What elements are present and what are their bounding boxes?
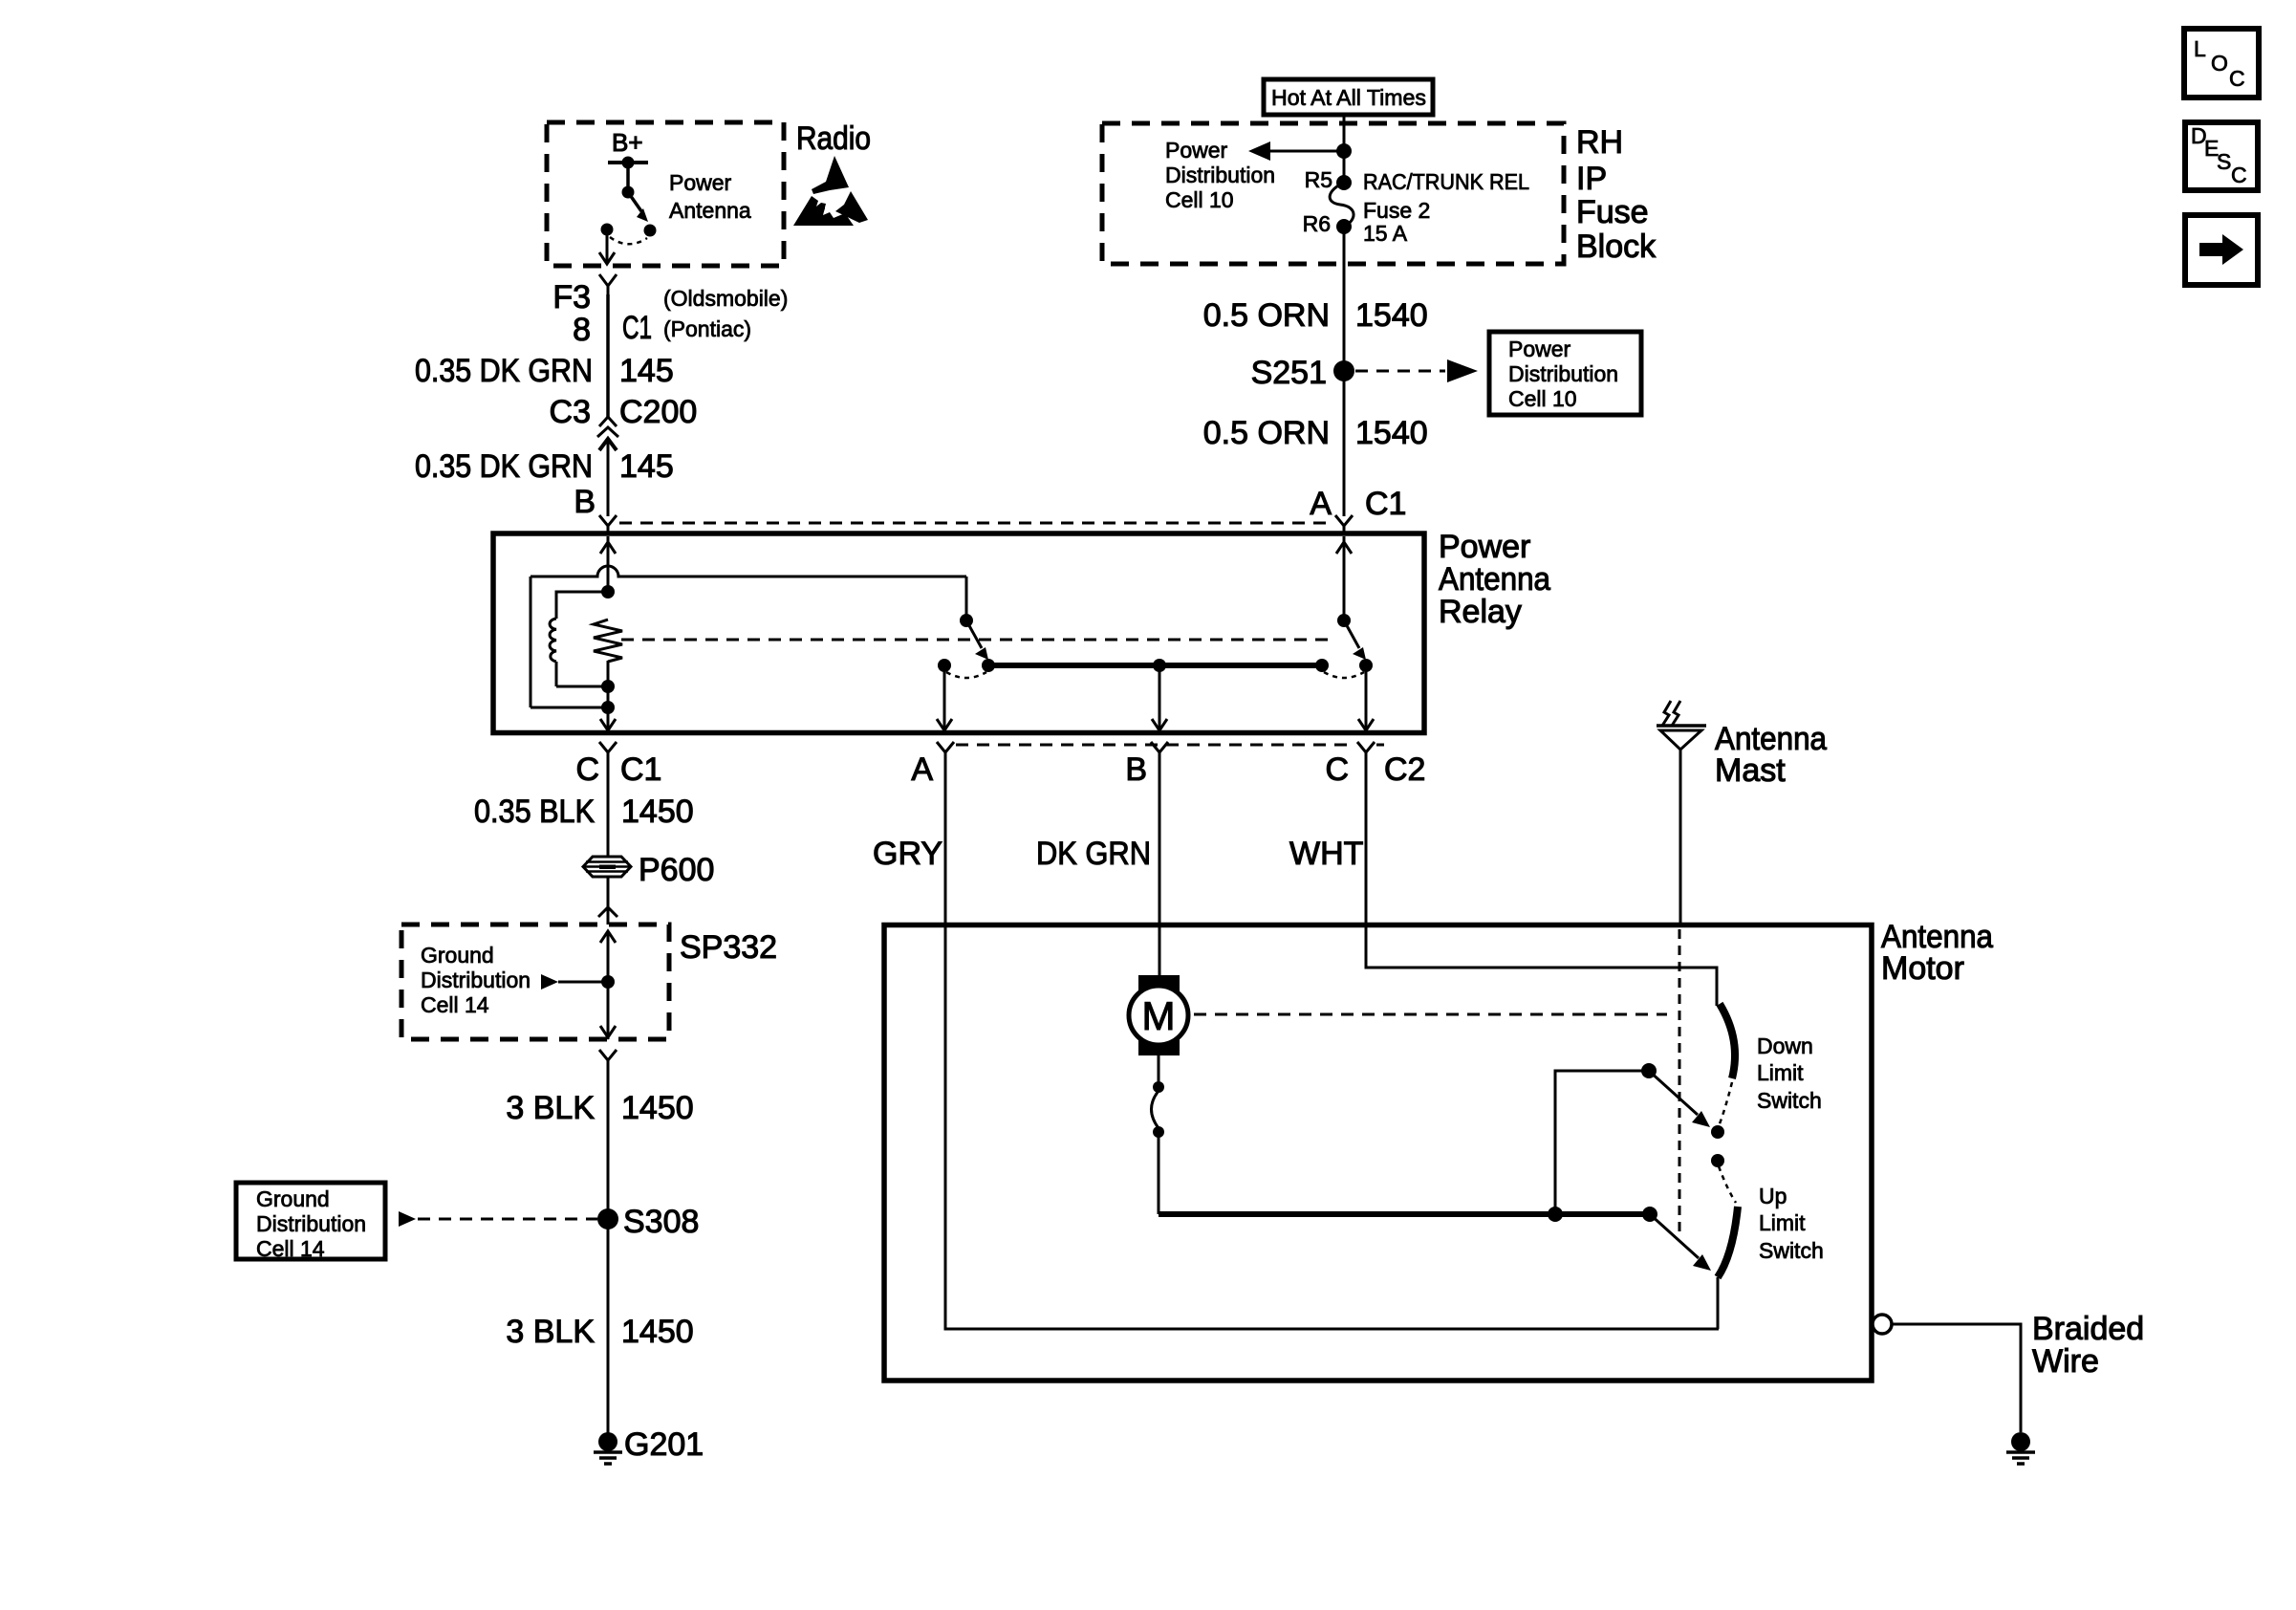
svg-text:C1: C1 bbox=[620, 751, 661, 788]
connector Y below radio bbox=[599, 274, 617, 296]
connector Y pin B bottom bbox=[1151, 742, 1168, 765]
svg-text:Ground: Ground bbox=[421, 943, 494, 968]
svg-text:Motor: Motor bbox=[1881, 950, 1964, 987]
svg-text:P600: P600 bbox=[639, 852, 714, 888]
DESC icon bbox=[2185, 122, 2258, 190]
arrow icon bbox=[2185, 215, 2258, 285]
svg-text:RAC/TRUNK REL: RAC/TRUNK REL bbox=[1363, 169, 1529, 194]
svg-text:C2: C2 bbox=[1384, 751, 1425, 788]
coil circuit top line with hop over pin B wire bbox=[531, 566, 966, 577]
svg-text:(Oldsmobile): (Oldsmobile) bbox=[663, 286, 788, 311]
down limit blade bbox=[1649, 1071, 1698, 1115]
svg-text:0.35 DK GRN: 0.35 DK GRN bbox=[415, 353, 593, 389]
wire fuse to S251 bbox=[1343, 227, 1346, 371]
wire B (DK GRN) to motor bbox=[1159, 765, 1161, 977]
radio switch wire bbox=[626, 163, 630, 192]
fuse element bbox=[1330, 183, 1354, 227]
arrow up inside SP332 bbox=[600, 931, 616, 1039]
wire contact C down bbox=[1365, 665, 1368, 730]
svg-text:0.35 BLK: 0.35 BLK bbox=[474, 794, 595, 830]
braided wire terminal circle bbox=[1873, 1315, 1892, 1334]
svg-text:Antenna: Antenna bbox=[1439, 561, 1550, 598]
braided wire ground bbox=[2006, 1432, 2035, 1464]
connector Y pin C bottom bbox=[599, 742, 617, 765]
relay thick transfer bar bbox=[988, 663, 1322, 668]
arrow up inside relay at pin B bbox=[600, 542, 616, 554]
svg-text:Radio: Radio bbox=[796, 120, 871, 157]
svg-text:(Pontiac): (Pontiac) bbox=[663, 316, 751, 341]
switch 2 pivot dot bbox=[1337, 614, 1351, 627]
svg-text:Block: Block bbox=[1576, 228, 1657, 265]
radio switch blade bbox=[628, 192, 641, 211]
internal switch top dot bbox=[1153, 1081, 1164, 1093]
hot at all times box bbox=[1264, 79, 1433, 115]
ground distribution cell 14 box bbox=[236, 1183, 385, 1259]
svg-text:R5: R5 bbox=[1305, 167, 1332, 192]
internal switch arc blade bbox=[1152, 1091, 1159, 1128]
svg-text:Cell 10: Cell 10 bbox=[1508, 386, 1577, 411]
coil circuit bottom link bbox=[531, 707, 608, 709]
grommet P600 bbox=[583, 857, 631, 877]
svg-text:1450: 1450 bbox=[621, 1090, 694, 1126]
wire up limit arc to return line bbox=[1717, 1277, 1720, 1329]
up limit dashed arc bbox=[1719, 1166, 1736, 1203]
svg-text:A: A bbox=[911, 751, 933, 788]
wire contact A down bbox=[943, 665, 946, 730]
svg-text:1540: 1540 bbox=[1355, 415, 1428, 451]
relay coil inductor branch bbox=[556, 592, 608, 686]
svg-text:B+: B+ bbox=[612, 128, 643, 157]
arrow up into C200 bbox=[599, 439, 617, 450]
wire Y to C200 bbox=[606, 294, 610, 417]
svg-text:0.5 ORN: 0.5 ORN bbox=[1203, 415, 1330, 451]
svg-text:C: C bbox=[2231, 163, 2247, 187]
svg-text:Ground: Ground bbox=[256, 1186, 330, 1211]
svg-text:IP: IP bbox=[1576, 161, 1607, 197]
coil return node dot bbox=[601, 701, 615, 714]
svg-text:15 A: 15 A bbox=[1363, 221, 1408, 246]
B+ node dot bbox=[622, 157, 635, 169]
svg-text:Switch: Switch bbox=[1757, 1088, 1822, 1113]
svg-text:Relay: Relay bbox=[1439, 594, 1522, 630]
ground G201 bbox=[594, 1432, 622, 1464]
arrow left to power distribution bbox=[1248, 141, 1270, 161]
arrow down pin C bbox=[1358, 719, 1374, 730]
connector Y pin C2 bottom bbox=[1357, 742, 1375, 765]
wire C (WHT) into motor box bbox=[1366, 765, 1717, 1006]
arrow down inside SP332 bbox=[600, 1026, 616, 1037]
svg-text:Power: Power bbox=[1439, 529, 1530, 565]
thick link wire to limit switches bbox=[1159, 1211, 1650, 1217]
up limit switch thick arc bbox=[1718, 1207, 1738, 1277]
LOC icon bbox=[2184, 29, 2259, 98]
up limit pivot dot bbox=[1642, 1207, 1657, 1222]
svg-text:Power: Power bbox=[1508, 337, 1571, 361]
wire C200 to relay pin B bbox=[607, 439, 610, 516]
svg-text:Power: Power bbox=[669, 170, 732, 195]
svg-text:Limit: Limit bbox=[1757, 1060, 1804, 1085]
SP332 junction dot bbox=[601, 975, 615, 989]
wire motor to internal switch bbox=[1158, 1055, 1160, 1087]
svg-text:RH: RH bbox=[1576, 124, 1623, 161]
radio switch contact dot right bbox=[644, 225, 657, 237]
svg-text:C1: C1 bbox=[622, 310, 652, 346]
fuse R5 dot bbox=[1336, 175, 1352, 190]
wire radio switch to box edge bbox=[606, 229, 609, 264]
down limit pivot dot bbox=[1641, 1063, 1657, 1078]
svg-text:3 BLK: 3 BLK bbox=[506, 1314, 595, 1350]
up limit blade bbox=[1650, 1214, 1699, 1258]
svg-text:Antenna: Antenna bbox=[669, 198, 751, 223]
svg-text:Limit: Limit bbox=[1759, 1210, 1806, 1235]
relay coil feed wire (pin B) bbox=[607, 536, 610, 592]
relay coil resistor zigzag bbox=[594, 620, 622, 662]
svg-text:C1: C1 bbox=[1365, 486, 1406, 522]
svg-text:DK GRN: DK GRN bbox=[1036, 836, 1151, 872]
svg-text:C3: C3 bbox=[550, 394, 591, 430]
power distribution branch wire bbox=[1269, 150, 1344, 153]
switch 2 feed wire from pin A top bbox=[1343, 536, 1346, 620]
svg-text:S251: S251 bbox=[1251, 355, 1327, 391]
svg-text:3 BLK: 3 BLK bbox=[506, 1090, 595, 1126]
connector C200 male half bbox=[597, 427, 618, 437]
dashed line S251 to power distribution bbox=[1355, 370, 1445, 373]
svg-text:0.35 DK GRN: 0.35 DK GRN bbox=[415, 448, 593, 485]
splice S308 dot bbox=[597, 1208, 618, 1229]
fuse R6 dot bbox=[1336, 219, 1352, 234]
svg-text:Up: Up bbox=[1759, 1184, 1787, 1208]
radio dashed box bbox=[547, 122, 784, 266]
svg-text:8: 8 bbox=[573, 312, 591, 348]
radio switch contact dot left bbox=[601, 224, 614, 236]
dashed connector line C2 below relay bbox=[956, 744, 1355, 747]
braided wire bbox=[1892, 1324, 2021, 1432]
transfer bar junction dot (pin B) bbox=[1153, 659, 1166, 672]
svg-text:F3: F3 bbox=[552, 279, 591, 315]
internal switch bottom dot bbox=[1153, 1126, 1164, 1138]
svg-text:C200: C200 bbox=[619, 394, 697, 430]
svg-text:Mast: Mast bbox=[1715, 752, 1786, 789]
coil circuit left side bbox=[530, 577, 532, 707]
svg-text:0.5 ORN: 0.5 ORN bbox=[1203, 297, 1330, 334]
svg-text:Distribution: Distribution bbox=[421, 968, 531, 992]
svg-text:C: C bbox=[575, 751, 599, 788]
radio switch throw dashed arc bbox=[610, 237, 647, 244]
motor M1 bbox=[1129, 975, 1188, 1055]
coil wire bottom node to return node bbox=[607, 661, 610, 732]
riser wire to down-limit pivot bbox=[1555, 1071, 1649, 1214]
dashed stub right of C2 bbox=[1376, 744, 1384, 747]
svg-text:SP332: SP332 bbox=[680, 929, 777, 966]
relay switch 1 feed from coil top line bbox=[965, 577, 968, 620]
splice SP332 dashed box bbox=[401, 925, 669, 1039]
switch 2 blade bbox=[1344, 620, 1359, 648]
svg-text:Cell 14: Cell 14 bbox=[256, 1236, 325, 1261]
switch 2 contact dot (pin C) bbox=[1359, 659, 1373, 672]
motor dashed linkage line bbox=[1194, 1013, 1667, 1016]
svg-text:Down: Down bbox=[1757, 1033, 1813, 1058]
svg-text:Fuse 2: Fuse 2 bbox=[1363, 198, 1430, 223]
svg-text:O: O bbox=[2211, 51, 2228, 76]
connector chevron above SP332 bbox=[598, 907, 617, 917]
arrow from ground distribution to wire bbox=[541, 974, 558, 990]
svg-text:Hot At All Times: Hot At All Times bbox=[1271, 85, 1426, 110]
wire junction B down bbox=[1159, 665, 1161, 730]
wire P600 to SP332 bbox=[607, 877, 610, 925]
power distribution cell 10 box (right) bbox=[1489, 332, 1641, 415]
svg-text:Distribution: Distribution bbox=[1508, 361, 1618, 386]
junction dot lower bbox=[1548, 1207, 1563, 1222]
switch 1 NC contact dot (pin A) bbox=[938, 659, 951, 672]
svg-text:C: C bbox=[1325, 751, 1349, 788]
transfer dot bbox=[1711, 1154, 1724, 1167]
svg-text:Braided: Braided bbox=[2032, 1311, 2144, 1347]
inductor loops bbox=[550, 619, 556, 662]
svg-text:M: M bbox=[1142, 993, 1176, 1038]
svg-text:145: 145 bbox=[619, 353, 674, 389]
down limit dashed arc bbox=[1719, 1082, 1732, 1126]
connector Y below SP332 bbox=[599, 1050, 617, 1071]
connector Y pin A bottom bbox=[937, 742, 954, 765]
switch 1 common contact dot bbox=[982, 659, 995, 672]
arrow from box to dashed link bbox=[399, 1211, 416, 1227]
coil bottom node dot bbox=[601, 680, 615, 693]
arrow down to relay pin C bbox=[600, 719, 616, 730]
switch 1 pivot dot bbox=[960, 614, 973, 627]
link line to junction bbox=[558, 981, 608, 984]
connector Y into relay pin B bbox=[599, 515, 617, 534]
antenna mast symbol bbox=[1657, 701, 1706, 925]
switch 2 throw dashed arc bbox=[1324, 672, 1364, 678]
fuse block dashed box bbox=[1102, 123, 1564, 264]
wire S251 to relay pin A bbox=[1343, 371, 1346, 516]
svg-text:145: 145 bbox=[619, 448, 674, 485]
arrow up inside relay at pin A bbox=[1336, 542, 1352, 554]
down limit contact dot bbox=[1711, 1125, 1724, 1139]
svg-text:B: B bbox=[1125, 751, 1147, 788]
switch 2 bar-end contact dot bbox=[1315, 659, 1329, 672]
junction dot branch bbox=[1336, 143, 1352, 159]
svg-text:A: A bbox=[1310, 486, 1332, 522]
relay box bbox=[493, 533, 1424, 733]
wire SP332 to S308 bbox=[607, 1069, 610, 1442]
splice S251 dot bbox=[1333, 360, 1354, 381]
svg-text:B: B bbox=[574, 484, 596, 520]
arrow down pin A bbox=[937, 719, 952, 730]
svg-text:Switch: Switch bbox=[1759, 1238, 1824, 1263]
svg-text:R6: R6 bbox=[1303, 211, 1331, 236]
arrow down pin B bbox=[1152, 719, 1167, 730]
svg-text:C: C bbox=[2229, 66, 2245, 91]
svg-text:GRY: GRY bbox=[873, 836, 942, 872]
svg-text:L: L bbox=[2194, 36, 2206, 61]
wire A (GRY) into motor box bbox=[945, 765, 1719, 1329]
wire hot to fuse R5 bbox=[1343, 115, 1346, 183]
wire relay C to P600 bbox=[607, 765, 610, 857]
svg-text:WHT: WHT bbox=[1289, 836, 1363, 872]
switch 1 throw dashed arc bbox=[946, 672, 986, 678]
svg-text:S308: S308 bbox=[623, 1204, 699, 1240]
connector Y into relay pin A bbox=[1335, 515, 1353, 534]
wire internal switch down and right bbox=[1158, 1132, 1160, 1214]
arrow out of radio bbox=[599, 252, 615, 264]
svg-text:Wire: Wire bbox=[2032, 1343, 2099, 1380]
svg-text:1540: 1540 bbox=[1355, 297, 1428, 334]
switch 1 blade bbox=[966, 620, 982, 648]
svg-text:Cell 14: Cell 14 bbox=[421, 992, 489, 1017]
dashed connector line C1 above relay bbox=[619, 522, 1332, 525]
svg-text:G201: G201 bbox=[624, 1426, 704, 1463]
down limit switch thick arc bbox=[1720, 1004, 1735, 1078]
svg-text:Power: Power bbox=[1165, 138, 1228, 163]
ESD symbol bbox=[793, 156, 868, 226]
svg-text:Cell 10: Cell 10 bbox=[1165, 187, 1234, 212]
B+ terminal bar bbox=[608, 161, 648, 164]
svg-text:1450: 1450 bbox=[621, 1314, 694, 1350]
svg-text:Distribution: Distribution bbox=[256, 1211, 366, 1236]
mast dashed linkage line bbox=[1679, 929, 1681, 1238]
coil top node dot bbox=[601, 585, 615, 598]
dashed link to S308 bbox=[418, 1218, 597, 1221]
svg-text:1450: 1450 bbox=[621, 794, 694, 830]
connector C200 female half bbox=[599, 417, 617, 426]
svg-text:S: S bbox=[2217, 149, 2231, 174]
arrow right to power distribution bbox=[1447, 359, 1478, 382]
svg-text:Distribution: Distribution bbox=[1165, 163, 1275, 187]
svg-text:Fuse: Fuse bbox=[1576, 194, 1649, 230]
antenna motor box bbox=[884, 925, 1872, 1382]
relay internal dashed actuation line bbox=[621, 639, 1336, 642]
radio switch pivot dot bbox=[622, 186, 635, 199]
